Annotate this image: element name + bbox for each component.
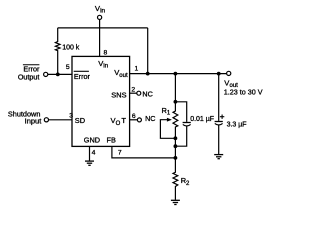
svg-text:5: 5 xyxy=(66,64,70,71)
svg-text:T: T xyxy=(121,116,126,125)
svg-text:100 k: 100 k xyxy=(62,44,80,51)
svg-text:out: out xyxy=(119,73,128,79)
svg-text:2: 2 xyxy=(131,86,135,93)
svg-text:Input: Input xyxy=(25,117,43,126)
svg-text:FB: FB xyxy=(107,135,116,144)
svg-text:NC: NC xyxy=(142,89,152,98)
svg-text:SNS: SNS xyxy=(111,91,126,100)
svg-text:in: in xyxy=(100,7,105,14)
svg-text:1: 1 xyxy=(135,65,139,72)
svg-text:in: in xyxy=(103,62,108,69)
svg-text:Output: Output xyxy=(18,73,40,82)
svg-text:6: 6 xyxy=(132,113,136,120)
svg-text:8: 8 xyxy=(104,50,108,57)
svg-text:1.23 to 30 V: 1.23 to 30 V xyxy=(224,88,263,97)
svg-text:3: 3 xyxy=(69,112,73,119)
svg-text:SD: SD xyxy=(75,116,85,125)
svg-text:7: 7 xyxy=(118,149,122,156)
svg-text:4: 4 xyxy=(92,150,96,157)
svg-text:O: O xyxy=(116,121,121,127)
svg-text:NC: NC xyxy=(145,114,155,123)
svg-text:3.3 µF: 3.3 µF xyxy=(227,122,247,129)
svg-text:Error: Error xyxy=(74,72,91,81)
svg-text:0.01 µF: 0.01 µF xyxy=(190,116,214,123)
svg-text:GND: GND xyxy=(84,135,100,144)
